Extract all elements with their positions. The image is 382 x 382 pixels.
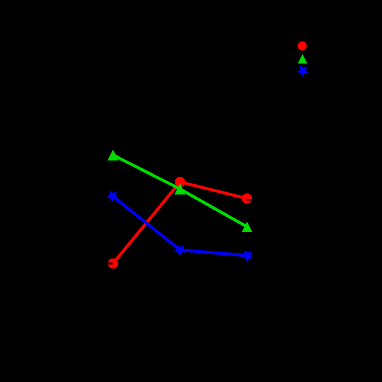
node green triangle marker 3 bbox=[242, 221, 253, 232]
node blue star marker 1 bbox=[106, 191, 118, 203]
legend blue star bbox=[297, 66, 308, 77]
wire blue data line bbox=[113, 196, 248, 256]
wire green data line bbox=[113, 155, 247, 227]
black slot over right red circle bbox=[246, 199, 252, 201]
wire red data line bbox=[113, 182, 247, 264]
node red circle marker 2 bbox=[175, 177, 185, 187]
node blue star marker 3 bbox=[241, 250, 253, 262]
node red circle marker 3 bbox=[242, 193, 252, 203]
node green triangle marker 2 bbox=[175, 184, 186, 195]
node red circle marker 1 bbox=[108, 258, 118, 268]
black slot over left red circle bbox=[108, 263, 113, 265]
node blue star marker 2 bbox=[174, 245, 186, 257]
node green triangle marker 1 bbox=[108, 150, 119, 161]
legend green triangle bbox=[298, 54, 307, 63]
legend red circle bbox=[298, 41, 307, 50]
